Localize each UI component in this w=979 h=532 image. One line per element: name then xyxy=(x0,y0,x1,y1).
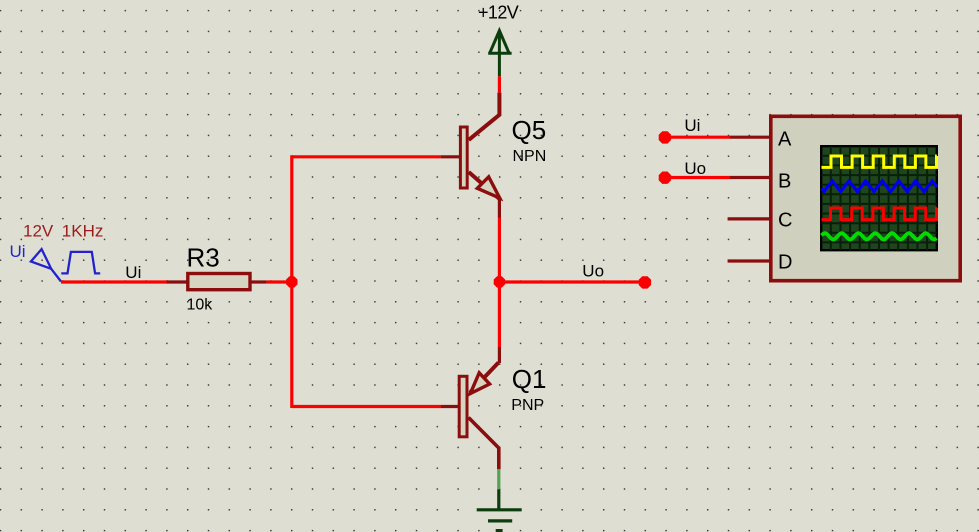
svg-text:B: B xyxy=(778,171,791,193)
wire Q1 collector to ground xyxy=(497,469,500,489)
wire Uo output xyxy=(499,280,645,283)
wire generator to R3 xyxy=(61,280,168,283)
svg-text:Ui: Ui xyxy=(125,263,141,282)
wire output junction to Q1 emitter xyxy=(498,282,501,347)
svg-text:R3: R3 xyxy=(187,242,220,272)
waveform channel B blue xyxy=(822,181,937,192)
wire Q5 emitter to output junction xyxy=(498,218,501,283)
wire Uo to scope B xyxy=(665,176,730,179)
ground xyxy=(477,489,522,530)
svg-text:Uo: Uo xyxy=(684,159,706,178)
scope screen xyxy=(821,146,937,250)
svg-text:Q5: Q5 xyxy=(512,115,547,145)
pin D stub xyxy=(728,259,771,262)
wire junction vertical xyxy=(290,155,293,408)
svg-text:Q1: Q1 xyxy=(512,364,547,394)
svg-text:12V: 12V xyxy=(23,221,54,240)
svg-text:10k: 10k xyxy=(187,297,214,314)
waveform channel A yellow xyxy=(822,156,937,167)
resistor R3 xyxy=(167,274,267,290)
transistor Q1 xyxy=(441,347,499,469)
svg-text:A: A xyxy=(778,128,792,150)
svg-text:NPN: NPN xyxy=(513,148,547,165)
terminal Ui dot xyxy=(659,131,671,143)
terminal Uo dot xyxy=(639,276,651,288)
wire to Q5 base xyxy=(292,155,441,158)
wire Ui to scope A xyxy=(665,136,730,139)
wire +12V to Q5 collector xyxy=(498,76,501,92)
svg-text:D: D xyxy=(778,252,792,274)
pin B wire xyxy=(730,176,771,179)
svg-text:PNP: PNP xyxy=(511,397,544,414)
svg-text:1KHz: 1KHz xyxy=(62,221,104,240)
generator Ui xyxy=(31,249,100,281)
svg-text:C: C xyxy=(778,210,792,232)
oscilloscope body xyxy=(771,116,960,280)
svg-text:+12V: +12V xyxy=(478,2,519,22)
junction node output xyxy=(494,276,505,287)
wire to Q1 base xyxy=(292,405,441,408)
transistor Q5 xyxy=(441,93,500,218)
svg-text:Uo: Uo xyxy=(582,261,604,280)
junction node input xyxy=(286,276,297,287)
pin C stub xyxy=(728,217,771,220)
svg-text:Ui: Ui xyxy=(684,116,700,135)
svg-text:Ui: Ui xyxy=(10,242,26,261)
wire R3 to junction xyxy=(267,280,292,283)
waveform channel C red xyxy=(822,208,937,220)
power terminal +12V xyxy=(488,31,511,77)
waveform channel D green xyxy=(822,233,937,239)
terminal Uo dot xyxy=(659,172,671,184)
pin A wire xyxy=(730,136,771,139)
